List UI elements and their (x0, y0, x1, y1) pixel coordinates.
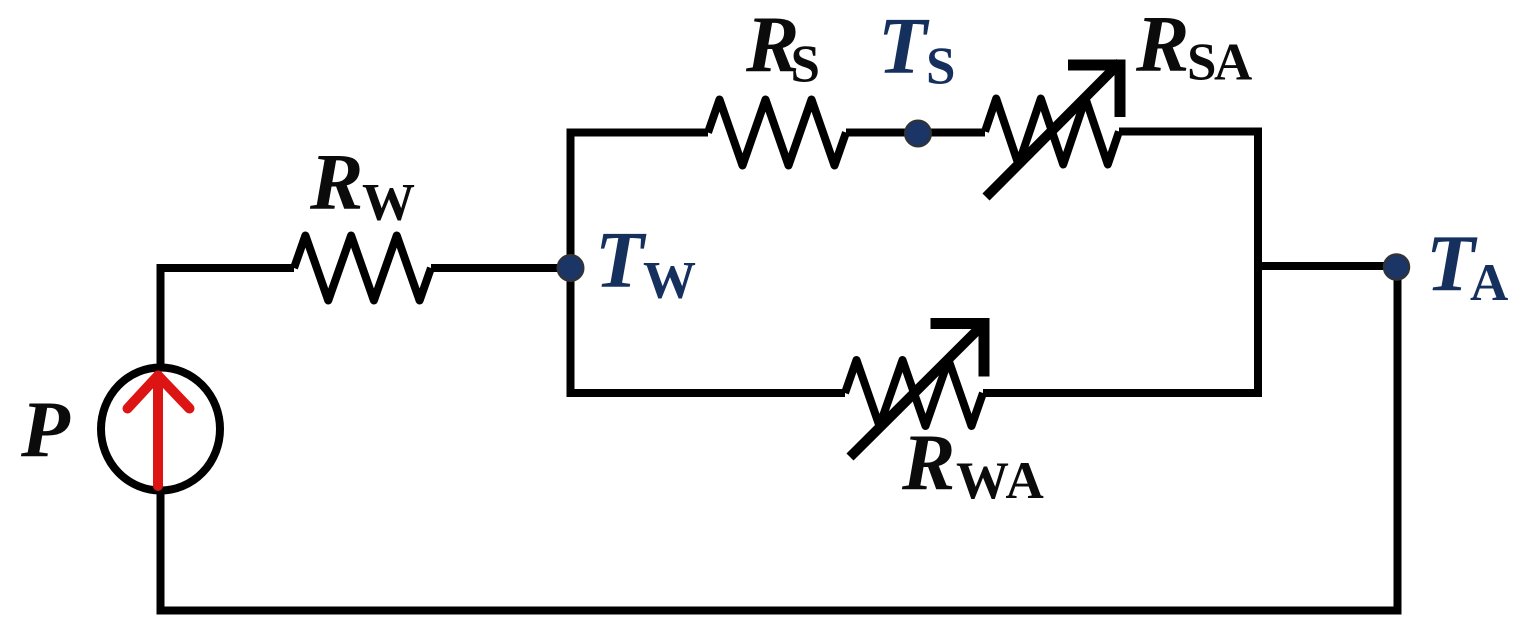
svg-text:W: W (643, 252, 696, 310)
svg-text:R: R (309, 139, 363, 227)
svg-text:S: S (791, 36, 820, 94)
svg-text:T: T (595, 217, 647, 305)
svg-text:R: R (1135, 1, 1189, 89)
svg-text:A: A (1006, 452, 1044, 510)
svg-text:A: A (1214, 34, 1252, 92)
svg-text:W: W (956, 452, 1009, 510)
svg-text:P: P (20, 386, 71, 474)
svg-text:S: S (1187, 34, 1216, 92)
svg-text:T: T (878, 2, 930, 90)
svg-text:A: A (1470, 254, 1508, 312)
svg-text:R: R (901, 420, 955, 508)
svg-text:S: S (926, 38, 955, 96)
svg-text:W: W (362, 174, 415, 232)
